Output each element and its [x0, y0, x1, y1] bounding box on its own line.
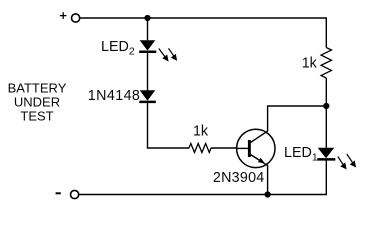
resistor R1 1k (right rail)	[321, 48, 331, 79]
wire LED2 anode	[147, 18, 149, 40]
terminal + (positive battery input)	[60, 12, 80, 22]
wire D2 cathode to D3 anode	[147, 52, 149, 90]
light arrows LED1	[338, 154, 356, 168]
svg-text:UNDER: UNDER	[14, 95, 60, 110]
junction node B (collector, R1, LED1)	[323, 103, 329, 109]
wire node B to LED1 anode	[325, 106, 327, 148]
diode D3 1N4148	[139, 90, 156, 102]
wire R2 to base	[211, 147, 237, 149]
svg-text:2N3904: 2N3904	[213, 170, 265, 186]
wire top rail	[80, 17, 326, 19]
wire D3 cathode down and right to R2	[148, 102, 190, 148]
junction node C (emitter to bottom rail)	[265, 191, 271, 197]
resistor R2 1k (base resistor)	[189, 144, 211, 153]
svg-text:LED1: LED1	[284, 145, 318, 164]
wire LED1 cathode to bottom rail	[325, 160, 327, 195]
terminal - (negative battery input)	[56, 190, 79, 198]
wire right rail top	[325, 17, 327, 47]
svg-text:1k: 1k	[302, 56, 318, 72]
transistor Q1 2N3904	[237, 129, 275, 167]
light arrows LED2	[159, 48, 177, 60]
svg-text:1k: 1k	[193, 124, 209, 140]
svg-text:BATTERY: BATTERY	[8, 80, 67, 95]
wire bottom rail	[79, 194, 327, 196]
svg-text:1N4148: 1N4148	[88, 88, 140, 104]
junction node A (top rail to LED2 branch)	[144, 15, 150, 21]
wire collector up and right to node B	[268, 106, 327, 131]
LED D2	[139, 40, 156, 52]
svg-text:LED2: LED2	[101, 39, 135, 58]
LED D1	[317, 148, 335, 160]
wire R1 bottom to node B	[325, 78, 327, 106]
wire emitter down to node C	[267, 165, 269, 195]
label BATTERY UNDER TEST	[8, 80, 67, 123]
svg-text:TEST: TEST	[20, 109, 53, 124]
